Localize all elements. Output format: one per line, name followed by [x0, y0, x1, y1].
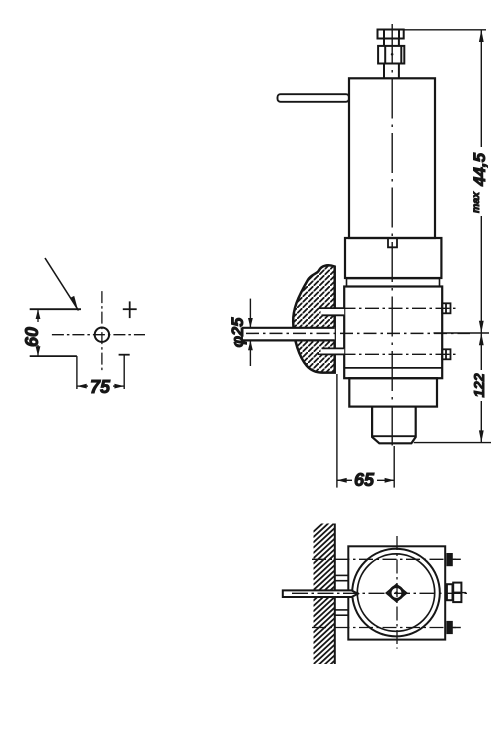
lower right bolt	[442, 349, 450, 359]
hole centerline horizontal	[52, 334, 145, 336]
plate bottom edge	[30, 355, 77, 357]
dimension max 44,5	[404, 30, 489, 333]
actuator cylinder	[349, 78, 435, 238]
outer circle	[352, 549, 440, 637]
upper right bolt	[442, 303, 450, 313]
cam blob	[293, 265, 335, 372]
dimension 60	[22, 309, 42, 356]
svg-text:44,5: 44,5	[470, 152, 489, 187]
svg-text:60: 60	[22, 327, 42, 347]
lower port stub	[321, 348, 345, 354]
top right bolt	[447, 554, 461, 566]
dimension 75	[77, 377, 124, 397]
body square	[348, 546, 445, 639]
hub circle	[390, 587, 403, 600]
upper stud stem	[384, 39, 399, 46]
svg-text:122: 122	[472, 373, 488, 397]
thin gasket band	[347, 279, 440, 287]
lower wall bolt	[335, 610, 349, 615]
vertical centerline	[391, 24, 393, 447]
bottom bolt axis	[312, 627, 456, 629]
middle nut	[378, 46, 404, 64]
dimension 122	[414, 333, 491, 443]
vertical axis	[396, 536, 398, 649]
svg-text:65: 65	[354, 470, 375, 490]
plate corner right	[119, 355, 130, 389]
lower port axis	[318, 353, 457, 355]
step block	[349, 378, 437, 406]
main horizontal axis	[246, 332, 470, 334]
hole centerline vertical	[101, 291, 103, 372]
top bolt axis	[312, 558, 456, 560]
nozzle	[372, 407, 416, 444]
upper port stub	[321, 308, 345, 315]
main valve body	[344, 287, 442, 379]
top lever rod	[278, 94, 349, 102]
middle right fitting	[447, 583, 466, 603]
leader line	[45, 258, 79, 311]
svg-text:75: 75	[90, 377, 111, 397]
hub lens	[387, 585, 407, 602]
lower stud stem	[384, 64, 399, 79]
lever rod (bottom view)	[283, 590, 358, 597]
upper port axis	[318, 307, 457, 309]
top nut	[378, 30, 404, 39]
inner circle	[357, 554, 434, 631]
upper wall bolt	[335, 575, 349, 580]
plate top edge	[30, 308, 81, 310]
svg-text:max: max	[470, 191, 482, 213]
flange block	[345, 238, 441, 278]
wall line	[334, 524, 336, 665]
dimension phi 25	[229, 299, 253, 366]
plus mark	[123, 301, 137, 318]
lever rod (side view)	[242, 327, 335, 340]
dimension 65	[337, 374, 395, 490]
middle axis	[292, 592, 468, 594]
bottom right bolt	[447, 622, 461, 634]
hub center dot	[395, 592, 398, 595]
mounting hole	[95, 328, 109, 342]
svg-text:φ25: φ25	[229, 317, 247, 348]
plate left extension	[76, 356, 78, 389]
wall hatching	[313, 512, 335, 686]
